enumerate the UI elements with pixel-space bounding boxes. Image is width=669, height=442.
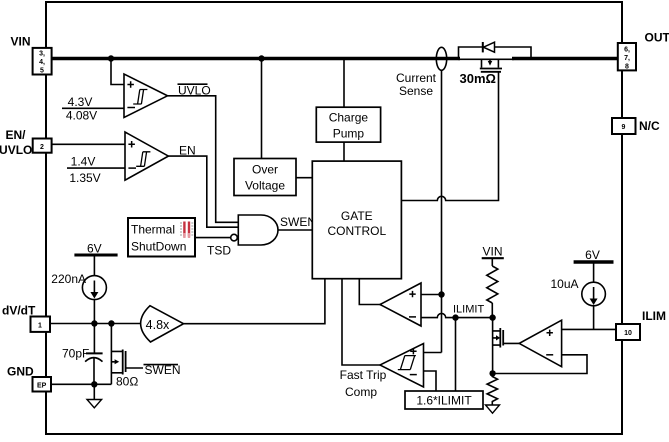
node dot on bus at x=111 [108,55,114,61]
wire EN comparator - input with fraction bar [67,167,125,169]
wire current source to dV/dT node [93,300,95,324]
charge pump block [316,107,380,142]
svg-text:7,: 7, [624,55,630,62]
svg-text:OUT: OUT [645,31,669,45]
svg-text:10uA: 10uA [550,277,578,291]
svg-text:VIN: VIN [482,245,502,259]
svg-text:Fast Trip: Fast Trip [340,368,387,382]
gate control block [312,161,401,279]
amplifier 4.8x [141,306,184,342]
svg-text:Sense: Sense [399,84,433,98]
wire over voltage to gate control [296,177,312,179]
node dot GND junction [91,381,97,387]
wire 6V to current source [93,255,95,276]
current source I1 220nA [82,276,106,300]
transistor Q1 power FET 30mOhm [480,60,502,72]
wire fast trip - input to 1.6*ILIMIT [424,371,437,391]
wire current source to ILIM wire [593,306,595,330]
svg-text:4,: 4, [39,59,45,66]
svg-text:1.35V: 1.35V [69,171,100,185]
thermometer icon (red) [180,222,193,239]
right 6V supply rail [574,260,614,263]
wire amp - input to ILIMIT node (hops sense line) [421,313,493,317]
svg-text:SWEN: SWEN [280,215,316,229]
capacitor C1 70pF [93,324,95,354]
op-amp U6 ILIM buffer (points left) [519,320,561,367]
wire fast trip + input to sense line [424,352,442,354]
svg-text:N/C: N/C [639,119,660,133]
svg-text:2: 2 [40,144,44,151]
1.6*ILIMIT block [405,391,483,409]
svg-text:GATE: GATE [341,209,373,223]
wire op-amp - feedback loop [493,355,587,374]
transistor Q3 current limit FET [493,318,520,374]
svg-text:10: 10 [624,330,632,337]
resistor R2 sense divider bottom [487,373,497,404]
svg-text:3,: 3, [39,51,45,58]
pin EN/UVLO (2) [33,139,52,153]
svg-text:dV/dT: dV/dT [2,304,36,318]
wire 4.8x output to gate control [184,279,325,324]
wire dV/dT pin to 4.8x amp [50,323,141,325]
power FET body diode loop [459,47,532,59]
svg-text:70pF: 70pF [62,347,89,361]
pin GND (EP) [33,377,52,392]
svg-text:Thermal: Thermal [131,223,175,237]
svg-text:Pump: Pump [333,127,365,141]
svg-text:9: 9 [622,124,626,131]
svg-text:EN/: EN/ [5,128,26,142]
svg-text:6V: 6V [585,248,600,262]
svg-text:ILIMIT: ILIMIT [453,304,484,316]
wire charge pump to gate control [343,142,345,161]
svg-text:4.8x: 4.8x [146,318,170,332]
AND gate U3 [238,215,278,245]
wire TSD to AND gate bubble [195,237,231,239]
op-amp U4 current limit amp [380,283,421,326]
ground symbol right [486,405,500,413]
svg-text:8: 8 [625,64,629,71]
svg-text:30mΩ: 30mΩ [460,71,496,86]
over voltage block [234,159,296,196]
svg-text:Charge: Charge [329,111,369,125]
svg-text:220nA: 220nA [51,272,86,286]
resistor R1 sense divider top [491,258,493,266]
svg-text:CONTROL: CONTROL [327,224,386,238]
wire EN pin to comparator + input [52,143,125,145]
svg-text:80Ω: 80Ω [116,375,138,389]
pin OUT (6,7,8) [618,43,636,71]
inverting bubble on TSD input [231,234,238,241]
svg-text:6V: 6V [87,242,102,256]
node dot at FET branch [108,320,114,326]
svg-text:GND: GND [7,365,34,379]
op-amp U5 fast trip comparator [380,344,424,388]
pin VIN (3,4,5) [33,48,52,75]
svg-text:5: 5 [40,68,44,75]
wire VIN bus (thick) [51,57,460,60]
pin dV/dT (1) [31,317,51,332]
svg-text:UVLO: UVLO [0,143,32,157]
svg-text:Current: Current [396,71,437,85]
svg-text:TSD: TSD [207,244,231,258]
svg-text:ILIM: ILIM [642,309,666,323]
ground symbol [93,384,95,399]
wire current sense line down to comparators [441,70,443,352]
node dot ILIMIT to 1.6*ILIMIT branch [452,314,458,320]
pin N/C (9) [612,118,636,134]
wire 6V to current source [593,262,595,282]
svg-text:4.3V: 4.3V [68,95,93,109]
wire ILIMIT node down to 1.6*ILIMIT block [455,318,457,391]
wire bus to charge pump [343,59,345,108]
svg-text:1.6*ILIMIT: 1.6*ILIMIT [416,394,472,408]
thermal shutdown block [128,218,195,257]
svg-text:4.08V: 4.08V [66,109,97,123]
wire op-amp + input to ILIM pin [562,328,616,330]
svg-text:6,: 6, [624,47,630,54]
svg-text:EP: EP [37,383,47,390]
node dot sense/amp junction [438,291,444,297]
op-amp U2 EN comparator [125,132,168,180]
svg-text:VIN: VIN [10,35,30,49]
wire bus to over voltage block [261,59,263,159]
wire UVLO comparator - input with fraction bar [62,107,124,109]
wire UVLO comparator + input tap [111,59,124,85]
svg-text:Over: Over [252,163,278,177]
wire UVLO output to AND gate [168,96,239,223]
transistor Q2 dV/dT discharge FET [111,324,143,385]
pin ILIM (10) [616,324,640,340]
wire amp + input to sense line [421,294,442,296]
node dot ILIMIT/resistor junction [489,314,495,320]
svg-text:EN: EN [179,144,196,158]
svg-text:1.4V: 1.4V [71,155,96,169]
wire gate control to power FET gate (hops sense line) [401,72,498,201]
left 6V supply rail [74,254,117,257]
current source I2 10uA [582,282,606,306]
wire amp output to gate control [359,279,381,305]
svg-text:Voltage: Voltage [245,179,285,193]
svg-text:1: 1 [38,323,42,330]
diode D1 (body diode) [482,42,484,52]
wire fast trip output to gate control [342,279,381,365]
wire GND pin to ground node [51,383,111,385]
svg-text:UVLO: UVLO [178,84,211,98]
current sense ellipse [436,47,446,70]
node dot on bus at x=261.5 [258,55,264,61]
node dot feedback/resistor junction [489,370,495,376]
wire EN output to AND gate [168,156,238,227]
node dot at cap branch [91,320,97,326]
svg-text:Comp: Comp [345,385,377,399]
wire SWEN output to gate control [278,229,312,231]
op-amp U1 UVLO comparator [124,74,168,118]
svg-text:ShutDown: ShutDown [131,240,186,254]
